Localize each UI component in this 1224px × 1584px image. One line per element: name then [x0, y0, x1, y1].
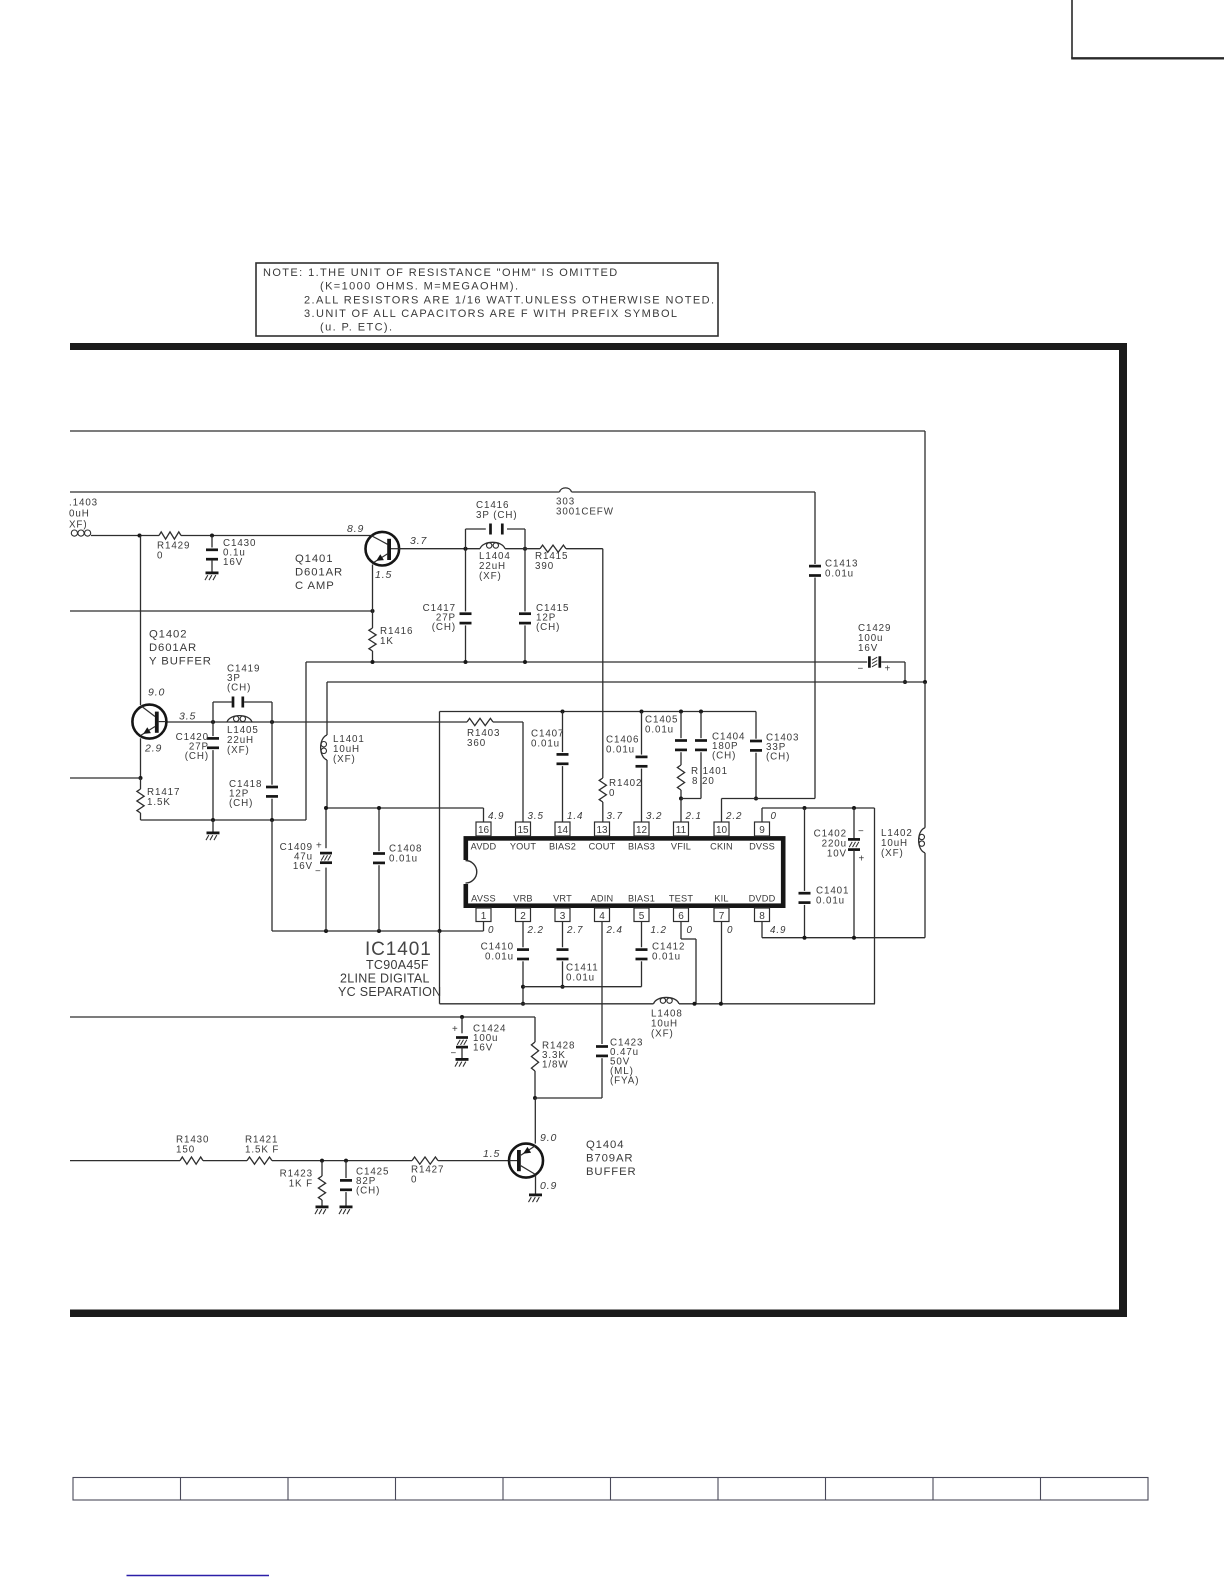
- voltage 4.9 pin 16: [488, 811, 504, 822]
- ground C1430: [205, 572, 219, 581]
- svg-text:(CH): (CH): [766, 752, 790, 763]
- transistor Q1404: [509, 1144, 543, 1178]
- wire ground rail 820: [141, 818, 307, 822]
- svg-text:9.0: 9.0: [540, 1132, 557, 1144]
- pin 15 YOUT: [510, 822, 537, 851]
- resistor R1421: [245, 1135, 279, 1165]
- pin 6 TEST: [669, 894, 693, 922]
- svg-text:3.7: 3.7: [410, 535, 428, 547]
- wire KIL pin7: [721, 922, 723, 1004]
- svg-text:+: +: [316, 841, 323, 852]
- svg-text:2.7: 2.7: [566, 925, 583, 936]
- pin 7 KIL: [714, 894, 729, 922]
- capacitor C1413: [809, 492, 858, 799]
- svg-text:(CH): (CH): [229, 798, 253, 809]
- svg-text:(FYA): (FYA): [610, 1076, 639, 1087]
- svg-text:10: 10: [716, 825, 728, 836]
- svg-text:3.5: 3.5: [528, 811, 544, 822]
- svg-text:4: 4: [599, 911, 605, 922]
- wire Q1401 collector: [399, 547, 603, 551]
- resistor R1430: [176, 1135, 209, 1165]
- svg-text:15: 15: [517, 825, 529, 836]
- svg-text:1.4: 1.4: [567, 811, 583, 822]
- svg-text:(XF): (XF): [333, 754, 356, 765]
- svg-text:ADIN: ADIN: [591, 894, 614, 904]
- capacitor C1412: [636, 922, 686, 987]
- svg-text:16V: 16V: [223, 557, 243, 568]
- wire AVDD filter rail 662: [306, 660, 867, 820]
- svg-text:2.1: 2.1: [685, 811, 702, 822]
- svg-text:1K F: 1K F: [289, 1179, 313, 1190]
- svg-text:1.5K: 1.5K: [147, 797, 171, 808]
- svg-text:(CH): (CH): [712, 751, 736, 762]
- voltage 2.2 pin 2: [527, 925, 544, 936]
- capacitor C1425: [340, 1161, 389, 1206]
- label Q1404: [586, 1139, 637, 1178]
- wire C input rail: [70, 431, 925, 682]
- voltage 2.1 pin 11: [685, 811, 702, 822]
- wire Q1401 emitter: [372, 565, 374, 612]
- pin 3 VRT: [553, 894, 572, 922]
- svg-text:(XF): (XF): [227, 745, 250, 756]
- capacitor C1419: [213, 664, 272, 723]
- pin 13 COUT: [589, 822, 616, 851]
- voltage 0 pin 1: [488, 925, 494, 936]
- svg-text:0: 0: [609, 788, 615, 799]
- resistor R1428: [531, 1017, 575, 1100]
- voltage 1.5 Q1401: [375, 569, 392, 581]
- wire rail 1017: [70, 1015, 535, 1019]
- pin 1 AVSS: [471, 894, 496, 922]
- svg-text:3.2: 3.2: [646, 811, 662, 822]
- voltage 3.7 Q1401: [410, 535, 428, 547]
- svg-text:0: 0: [488, 925, 494, 936]
- svg-text:9: 9: [759, 825, 765, 836]
- svg-text:−: −: [315, 866, 322, 877]
- svg-text:2: 2: [520, 911, 526, 922]
- svg-text:12: 12: [636, 825, 648, 836]
- svg-text:−: −: [858, 826, 865, 837]
- svg-text:5: 5: [639, 911, 645, 922]
- svg-text:IC1401: IC1401: [365, 939, 432, 960]
- resistor R1402: [599, 778, 642, 822]
- svg-text:TEST: TEST: [669, 894, 693, 904]
- capacitor C1402: [814, 808, 866, 938]
- voltage 9.0 Q1402: [148, 687, 165, 699]
- svg-text:360: 360: [467, 738, 486, 749]
- voltage 8.9: [347, 523, 364, 535]
- svg-text:16: 16: [478, 825, 490, 836]
- svg-text:0.01u: 0.01u: [531, 739, 560, 750]
- wire VFIL pin11: [680, 799, 682, 823]
- svg-text:AVDD: AVDD: [471, 841, 497, 851]
- svg-text:0.9: 0.9: [540, 1180, 557, 1192]
- wire TEST pin6: [681, 922, 696, 1004]
- svg-text:Q1402: Q1402: [149, 629, 187, 641]
- svg-text:0.01u: 0.01u: [485, 952, 514, 963]
- pin 14 BIAS2: [549, 822, 576, 851]
- svg-text:TC90A45F: TC90A45F: [366, 958, 429, 972]
- voltage 0.9 Q1404: [540, 1180, 557, 1192]
- voltage 9.0 Q1404: [540, 1132, 557, 1144]
- resistor R1429: [157, 532, 190, 562]
- svg-text:0.01u: 0.01u: [825, 569, 854, 580]
- inductor L1401: [321, 682, 365, 808]
- svg-text:(CH): (CH): [185, 751, 209, 762]
- pin 8 DVDD: [749, 894, 776, 922]
- wire Q1402 emitter: [139, 738, 143, 780]
- voltage 2.4 pin 4: [606, 925, 623, 936]
- transistor Q1402: [132, 705, 166, 739]
- svg-text:1.5: 1.5: [375, 569, 392, 581]
- svg-text:VRT: VRT: [553, 894, 572, 904]
- svg-text:CKIN: CKIN: [710, 841, 733, 851]
- jumper 303 3001CEFW: [556, 488, 614, 518]
- svg-text:3001CEFW: 3001CEFW: [556, 507, 614, 518]
- capacitor C1401: [799, 808, 850, 938]
- svg-text:0.01u: 0.01u: [566, 973, 595, 984]
- wire AVSS bottom rail 1004: [440, 931, 876, 1006]
- svg-text:(XF): (XF): [881, 848, 904, 859]
- svg-text:Q1401: Q1401: [295, 553, 333, 565]
- wire L1403 to Q1401 base: [91, 534, 371, 538]
- svg-text:(K=1000 OHMS. M=MEGAOHM).: (K=1000 OHMS. M=MEGAOHM).: [320, 281, 519, 293]
- svg-text:2.4: 2.4: [606, 925, 623, 936]
- capacitor C1415: [519, 549, 569, 662]
- wire DVSS pin9: [762, 806, 875, 1004]
- voltage 0 pin 7: [727, 925, 733, 936]
- svg-text:DVDD: DVDD: [749, 894, 776, 904]
- svg-text:7: 7: [719, 911, 725, 922]
- pin 9 DVSS: [749, 822, 775, 851]
- svg-text:0uH: 0uH: [69, 509, 90, 520]
- inductor L1403: [69, 498, 98, 537]
- capacitor C1410: [481, 922, 529, 1006]
- svg-text:Q1404: Q1404: [586, 1139, 624, 1151]
- svg-text:0.01u: 0.01u: [645, 725, 674, 736]
- wire CKIN pin10: [722, 799, 816, 823]
- capacitor C1420: [176, 722, 219, 820]
- svg-text:2.2: 2.2: [527, 925, 544, 936]
- title block corner line: [1071, 0, 1224, 58]
- svg-text:1.2: 1.2: [651, 925, 667, 936]
- svg-text:(CH): (CH): [432, 622, 456, 633]
- svg-text:6: 6: [678, 911, 684, 922]
- wire Y input rail: [70, 491, 815, 493]
- wire VRB VRT rail 987: [523, 986, 642, 988]
- voltage 2.7 pin 3: [566, 925, 583, 936]
- inductor L1402: [881, 682, 925, 938]
- ground C1424: [455, 1058, 469, 1067]
- label Q1402: [149, 629, 212, 668]
- svg-text:16V: 16V: [293, 861, 313, 872]
- capacitor C1406: [606, 712, 648, 823]
- svg-text:YC SEPARATION: YC SEPARATION: [338, 985, 441, 999]
- svg-text:10V: 10V: [827, 849, 847, 860]
- svg-text:16V: 16V: [473, 1043, 493, 1054]
- svg-text:(u. P. ETC).: (u. P. ETC).: [320, 322, 393, 334]
- svg-text:(CH): (CH): [356, 1186, 380, 1197]
- svg-text:VFIL: VFIL: [671, 841, 691, 851]
- svg-text:AVSS: AVSS: [471, 894, 496, 904]
- svg-text:8: 8: [759, 911, 765, 922]
- svg-text:3.UNIT OF ALL CAPACITORS ARE F: 3.UNIT OF ALL CAPACITORS ARE F WITH PREF…: [304, 308, 678, 320]
- voltage 2.9 Q1402: [144, 743, 162, 755]
- wire Q1402 collector Y: [167, 720, 523, 822]
- svg-text:0: 0: [157, 551, 163, 562]
- resistor R1417: [137, 778, 180, 820]
- ground Q1404: [529, 1194, 543, 1203]
- ground rail 820 symbol: [206, 820, 220, 840]
- voltage 3.5 Q1402: [179, 711, 196, 723]
- resistor R1403: [467, 718, 500, 749]
- svg-text:14: 14: [557, 825, 569, 836]
- svg-text:2.9: 2.9: [144, 743, 162, 755]
- svg-text:0: 0: [727, 925, 733, 936]
- capacitor C1424: [451, 1017, 507, 1059]
- svg-text:+: +: [885, 664, 892, 675]
- svg-text:BIAS3: BIAS3: [628, 841, 655, 851]
- wire R1415 to COUT pin13: [602, 549, 604, 778]
- svg-text:YOUT: YOUT: [510, 841, 537, 851]
- inductor L1405: [227, 716, 259, 756]
- svg-text:BIAS2: BIAS2: [549, 841, 576, 851]
- svg-text:150: 150: [176, 1145, 195, 1156]
- svg-text:0: 0: [771, 811, 777, 822]
- svg-text:−: −: [451, 1048, 458, 1059]
- capacitor C1405: [645, 712, 687, 752]
- svg-text:2.ALL RESISTORS ARE 1/16 WATT.: 2.ALL RESISTORS ARE 1/16 WATT.UNLESS OTH…: [304, 295, 715, 307]
- voltage 1.2 pin 5: [651, 925, 667, 936]
- resistor R1427: [411, 1157, 444, 1186]
- svg-text:11: 11: [676, 825, 687, 836]
- wire AVSS cap rail 711: [440, 710, 757, 932]
- pin 11 VFIL: [671, 822, 691, 851]
- svg-text:VRB: VRB: [513, 894, 533, 904]
- svg-text:8 20: 8 20: [692, 776, 715, 787]
- svg-text:1.5: 1.5: [483, 1148, 500, 1160]
- svg-text:2LINE DIGITAL: 2LINE DIGITAL: [340, 972, 430, 986]
- svg-text:3P (CH): 3P (CH): [476, 510, 518, 521]
- capacitor C1429: [858, 623, 908, 684]
- svg-text:3: 3: [560, 911, 566, 922]
- capacitor C1417: [423, 549, 472, 662]
- voltage 0 pin 9: [771, 811, 777, 822]
- transistor Q1401: [366, 532, 400, 566]
- svg-text:9.0: 9.0: [148, 687, 165, 699]
- wire chroma rail 1160: [70, 1159, 509, 1163]
- svg-text:0.01u: 0.01u: [652, 952, 681, 963]
- svg-text:390: 390: [535, 561, 554, 572]
- svg-text:BUFFER: BUFFER: [586, 1166, 637, 1178]
- svg-text:0: 0: [687, 925, 693, 936]
- svg-text:0.01u: 0.01u: [389, 854, 418, 865]
- voltage 4.9 pin 8: [770, 925, 786, 936]
- label Q1401: [295, 553, 343, 592]
- voltage 3.7 pin 13: [607, 811, 623, 822]
- pin 4 ADIN: [591, 894, 614, 922]
- resistor R1415: [535, 545, 568, 572]
- pin 5 BIAS1: [628, 894, 655, 922]
- svg-text:NOTE: 1.THE UNIT OF RESISTANCE: NOTE: 1.THE UNIT OF RESISTANCE "OHM" IS …: [263, 267, 619, 279]
- svg-text:3.7: 3.7: [607, 811, 623, 822]
- wire AVSS rail 931: [272, 922, 484, 934]
- svg-text:0: 0: [411, 1175, 417, 1186]
- IC U1401 body: [462, 838, 783, 905]
- svg-text:3.5: 3.5: [179, 711, 196, 723]
- voltage 0 pin 6: [687, 925, 693, 936]
- inductor L1408: [651, 997, 683, 1039]
- voltage 2.2 pin 10: [725, 811, 742, 822]
- wire AVSS drop x272: [271, 820, 273, 931]
- pin 12 BIAS3: [628, 822, 655, 851]
- inductor L1404: [479, 542, 511, 582]
- svg-text:(CH): (CH): [227, 683, 251, 694]
- svg-text:−: −: [858, 664, 865, 675]
- svg-text:Y BUFFER: Y BUFFER: [149, 656, 212, 668]
- wire Q1402 base: [140, 536, 142, 706]
- capacitor C1423: [535, 1038, 643, 1099]
- svg-text:C AMP: C AMP: [295, 580, 335, 592]
- svg-text:(XF): (XF): [651, 1029, 674, 1040]
- resistor R1423: [280, 1161, 326, 1206]
- svg-text:+: +: [452, 1024, 459, 1035]
- svg-text:2.2: 2.2: [725, 811, 742, 822]
- wire DVDD rail 937: [762, 922, 925, 940]
- capacitor C1403: [750, 712, 799, 801]
- note box: [256, 263, 718, 336]
- svg-text:+: +: [859, 854, 866, 865]
- capacitor C1418: [229, 722, 278, 820]
- capacitor C1430: [206, 536, 256, 572]
- voltage 1.5 Q1404: [483, 1148, 500, 1160]
- svg-text:BIAS1: BIAS1: [628, 894, 655, 904]
- pin 10 CKIN: [710, 822, 733, 851]
- label IC1401: [338, 939, 441, 999]
- capacitor C1404: [681, 712, 745, 799]
- ground R1423: [315, 1206, 329, 1215]
- svg-text:8.9: 8.9: [347, 523, 364, 535]
- wire ADIN pin4: [601, 922, 603, 1045]
- svg-text:1/8W: 1/8W: [542, 1060, 568, 1071]
- svg-text:DVSS: DVSS: [749, 841, 775, 851]
- svg-text:D601AR: D601AR: [295, 567, 343, 579]
- resistor R1416: [369, 611, 413, 662]
- svg-text:1: 1: [481, 911, 487, 922]
- svg-text:KIL: KIL: [714, 894, 728, 904]
- svg-text:(XF): (XF): [479, 571, 502, 582]
- wire base rail 778: [70, 777, 141, 779]
- svg-text:D601AR: D601AR: [149, 642, 197, 654]
- capacitor C1407: [531, 712, 569, 823]
- voltage 1.4 pin 14: [567, 811, 583, 822]
- wire Q1404 emitter gnd: [535, 1176, 537, 1194]
- wire AVDD rail 808: [324, 806, 484, 822]
- pin 2 VRB: [513, 894, 533, 922]
- svg-text:1.5K F: 1.5K F: [245, 1145, 279, 1156]
- svg-text:XF): XF): [69, 520, 87, 531]
- pin 16 AVDD: [471, 822, 497, 851]
- svg-text:4.9: 4.9: [488, 811, 504, 822]
- svg-text:16V: 16V: [858, 643, 878, 654]
- svg-text:(CH): (CH): [536, 622, 560, 633]
- svg-text:4.9: 4.9: [770, 925, 786, 936]
- svg-text:0.01u: 0.01u: [816, 896, 845, 907]
- resistor R1401: [677, 752, 728, 800]
- capacitor C1408: [373, 808, 422, 931]
- wire R1428 to Q1404: [534, 1098, 536, 1144]
- ground C1425: [339, 1206, 353, 1215]
- wire supply rail 682: [327, 680, 927, 684]
- svg-text:0.01u: 0.01u: [606, 745, 635, 756]
- svg-text:1K: 1K: [380, 636, 394, 647]
- capacitor C1416: [466, 500, 526, 549]
- svg-text:13: 13: [596, 825, 608, 836]
- capacitor C1411: [557, 922, 599, 989]
- voltage 3.2 pin 12: [646, 811, 662, 822]
- wire emitter rail 611: [70, 609, 375, 613]
- capacitor C1409: [280, 808, 332, 931]
- svg-text:B709AR: B709AR: [586, 1153, 633, 1165]
- voltage 3.5 pin 15: [528, 811, 544, 822]
- svg-text:.1403: .1403: [69, 498, 98, 509]
- svg-text:COUT: COUT: [589, 841, 616, 851]
